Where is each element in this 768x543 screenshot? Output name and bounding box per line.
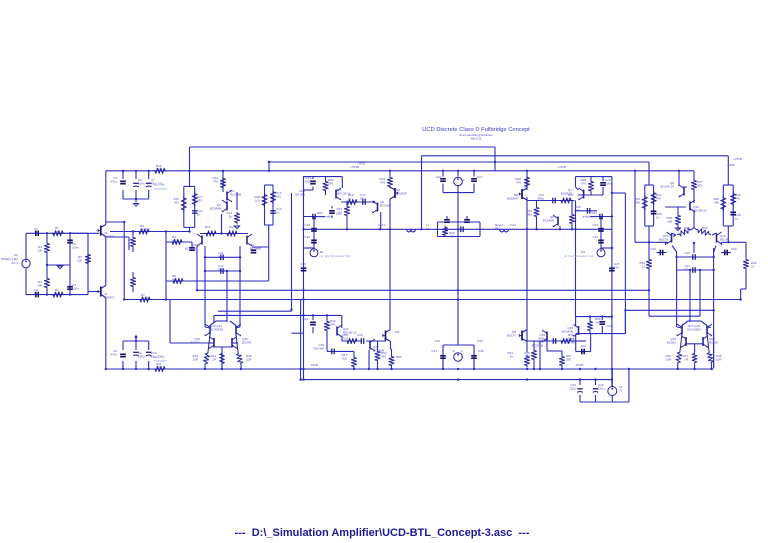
svg-text:Bruno Hendriks @ Eindtrans: Bruno Hendriks @ Eindtrans: [460, 133, 494, 137]
svg-text:AC 1: AC 1: [11, 261, 18, 265]
svg-text:1R: 1R: [684, 358, 689, 362]
svg-text:6k8: 6k8: [667, 220, 672, 224]
svg-text:910R: 910R: [141, 297, 149, 301]
svg-text:10: 10: [568, 197, 572, 201]
svg-text:100n: 100n: [683, 268, 690, 272]
svg-text:BC556B: BC556B: [532, 344, 543, 348]
svg-text:1k: 1k: [55, 230, 59, 234]
svg-text:BS250P: BS250P: [507, 197, 518, 201]
svg-text:1u: 1u: [426, 227, 430, 231]
svg-text:+75VB: +75VB: [727, 163, 735, 167]
svg-text:C33: C33: [731, 247, 737, 251]
svg-text:620: 620: [276, 195, 281, 199]
svg-text:C23: C23: [592, 223, 598, 227]
svg-text:240: 240: [328, 182, 333, 186]
svg-text:10: 10: [348, 197, 352, 201]
svg-text:470: 470: [380, 181, 385, 185]
svg-text:R53: R53: [396, 355, 402, 359]
svg-text:10R: 10R: [246, 358, 252, 362]
svg-text:100n: 100n: [72, 287, 79, 291]
svg-text:I2: I2: [452, 349, 455, 353]
svg-text:453: 453: [174, 201, 179, 205]
svg-text:BD139-16: BD139-16: [693, 209, 707, 213]
svg-text:C38: C38: [478, 349, 484, 353]
svg-text:BD139: BD139: [659, 238, 669, 242]
svg-text:BC546B: BC546B: [380, 204, 391, 208]
svg-text:47k: 47k: [656, 197, 661, 201]
svg-text:I1: I1: [460, 349, 463, 353]
svg-text:antiparallel: antiparallel: [582, 215, 597, 219]
svg-text:740: 740: [595, 321, 600, 325]
svg-text:UCD Discrete Class D Fullbridg: UCD Discrete Class D Fullbridge Concept: [422, 127, 530, 133]
svg-text:electrolytic: electrolytic: [154, 187, 168, 191]
svg-text:BC556: BC556: [709, 341, 719, 345]
svg-text:1u: 1u: [34, 231, 38, 235]
svg-text:1k: 1k: [510, 355, 514, 359]
svg-text:+75VB: +75VB: [557, 165, 566, 169]
svg-text:8R: 8R: [495, 227, 500, 231]
svg-text:C19: C19: [304, 235, 310, 239]
svg-text:453: 453: [197, 199, 202, 203]
svg-text:470: 470: [581, 182, 586, 186]
svg-text:C24: C24: [592, 235, 598, 239]
svg-text:+75VB: +75VB: [350, 165, 359, 169]
svg-text:C27: C27: [477, 175, 483, 179]
svg-text:BC546B: BC546B: [210, 207, 221, 211]
svg-text:68k: 68k: [714, 201, 719, 205]
svg-text:470u: 470u: [110, 353, 117, 357]
svg-text:BD140-16: BD140-16: [660, 185, 674, 189]
svg-text:antiparallel: antiparallel: [317, 215, 332, 219]
svg-text:BC546B: BC546B: [561, 192, 572, 196]
svg-text:100n: 100n: [138, 355, 145, 359]
svg-text:BC546B: BC546B: [230, 193, 241, 197]
svg-text:R14: R14: [205, 225, 211, 229]
svg-text:10k: 10k: [37, 249, 42, 253]
svg-text:C17: C17: [336, 212, 342, 216]
svg-text:BC556: BC556: [667, 341, 677, 345]
svg-text:+75VB: +75VB: [733, 157, 742, 161]
svg-text:10R: 10R: [156, 366, 162, 370]
svg-text:BC546: BC546: [191, 341, 201, 345]
svg-text:C35: C35: [357, 333, 363, 337]
svg-text:10R: 10R: [716, 358, 722, 362]
svg-text:BC546: BC546: [242, 341, 252, 345]
svg-text:240: 240: [330, 323, 335, 327]
svg-text:C44: C44: [434, 339, 440, 343]
svg-text:1n: 1n: [687, 255, 691, 259]
svg-text:C18: C18: [304, 223, 310, 227]
svg-text:100n: 100n: [605, 182, 612, 186]
svg-text:910R: 910R: [140, 228, 148, 232]
svg-text:C45: C45: [477, 339, 483, 343]
svg-text:470: 470: [516, 181, 521, 185]
svg-text:2SC4883A: 2SC4883A: [209, 328, 224, 332]
svg-text:BD140: BD140: [720, 238, 730, 242]
svg-text:Out1: Out1: [378, 223, 385, 227]
svg-text:360: 360: [566, 358, 571, 362]
svg-text:BS170: BS170: [507, 334, 516, 338]
svg-text:560p: 560p: [360, 197, 367, 201]
svg-text:68k: 68k: [635, 201, 640, 205]
svg-text:100n: 100n: [72, 246, 79, 250]
svg-text:220u: 220u: [569, 387, 576, 391]
svg-text:-PWR: -PWR: [575, 363, 584, 367]
svg-text:10k: 10k: [37, 284, 42, 288]
svg-text:4R7: 4R7: [449, 235, 455, 239]
svg-text:820: 820: [575, 209, 580, 213]
svg-text:I3: I3: [462, 178, 465, 182]
svg-text:100n: 100n: [607, 324, 614, 328]
svg-text:10p: 10p: [218, 255, 223, 259]
svg-text:75: 75: [619, 389, 623, 393]
svg-text:47k: 47k: [735, 197, 740, 201]
svg-text:22k: 22k: [77, 259, 82, 263]
svg-text:BC546B: BC546B: [543, 219, 554, 223]
svg-text:100: 100: [255, 199, 260, 203]
svg-text:750-360: 750-360: [294, 193, 305, 197]
svg-text:16V: 16V: [301, 266, 306, 270]
svg-text:C32: C32: [650, 247, 656, 251]
svg-text:C41: C41: [605, 315, 611, 319]
svg-text:470u: 470u: [110, 180, 117, 184]
svg-text:1k: 1k: [55, 292, 59, 296]
svg-text:Out2: Out2: [509, 223, 516, 227]
svg-text:E: Vout Simulation Only: E: Vout Simulation Only: [565, 254, 595, 258]
svg-text:560: 560: [525, 355, 530, 359]
svg-text:1n: 1n: [276, 211, 280, 215]
svg-text:100n: 100n: [138, 182, 145, 186]
svg-text:16V: 16V: [614, 266, 619, 270]
svg-text:680: 680: [697, 184, 702, 188]
svg-text:10: 10: [751, 265, 755, 269]
svg-text:BS250P: BS250P: [396, 192, 407, 196]
svg-text:BC546B: BC546B: [185, 247, 196, 251]
svg-text:C37: C37: [431, 349, 437, 353]
svg-text:1R: 1R: [212, 358, 217, 362]
svg-text:100: 100: [342, 357, 347, 361]
svg-text:10R: 10R: [665, 358, 671, 362]
svg-text:1k: 1k: [229, 215, 233, 219]
svg-text:750-360: 750-360: [313, 347, 324, 351]
svg-text:M3: M3: [395, 330, 399, 334]
svg-text:R15: R15: [229, 225, 235, 229]
svg-text:May 2010: May 2010: [471, 138, 482, 141]
svg-text:1n: 1n: [197, 213, 201, 217]
svg-text:100p: 100p: [218, 268, 225, 272]
svg-text:2N5457: 2N5457: [104, 235, 115, 239]
svg-text:2SA1859A: 2SA1859A: [687, 328, 701, 332]
svg-text:1n: 1n: [656, 216, 660, 220]
svg-text:220u: 220u: [598, 387, 605, 391]
svg-text:+75VB: +75VB: [357, 162, 365, 166]
svg-text:100: 100: [343, 337, 348, 341]
svg-text:1u: 1u: [34, 292, 38, 296]
svg-text:560p: 560p: [537, 197, 544, 201]
svg-text:BC546B: BC546B: [250, 247, 261, 251]
svg-text:-PWR: -PWR: [310, 363, 319, 367]
svg-text:10R: 10R: [192, 358, 198, 362]
svg-text:R40: R40: [702, 226, 708, 230]
svg-text:10R: 10R: [156, 168, 162, 172]
svg-text:1n: 1n: [735, 217, 739, 221]
svg-text:750-360: 750-360: [565, 341, 576, 345]
svg-text:C34: C34: [302, 317, 308, 321]
svg-text:electrolytic: electrolytic: [154, 359, 168, 363]
svg-text:C26: C26: [435, 175, 441, 179]
svg-text:E: Vout Simulation Only: E: Vout Simulation Only: [321, 254, 351, 258]
svg-text:10: 10: [642, 265, 646, 269]
svg-text:2N5457: 2N5457: [104, 296, 115, 300]
svg-text:R39: R39: [684, 226, 690, 230]
svg-text:--- D:\_Simulation Amplifier\: --- D:\_Simulation Amplifier\UCD-BTL_Con…: [235, 527, 530, 539]
svg-text:240: 240: [381, 355, 386, 359]
svg-text:4k7: 4k7: [172, 239, 177, 243]
svg-text:BC546B: BC546B: [562, 330, 573, 334]
svg-text:C40: C40: [580, 344, 586, 348]
svg-text:4k7: 4k7: [172, 278, 177, 282]
svg-text:100n: 100n: [304, 180, 311, 184]
svg-text:480: 480: [527, 213, 532, 217]
svg-text:470: 470: [213, 180, 218, 184]
